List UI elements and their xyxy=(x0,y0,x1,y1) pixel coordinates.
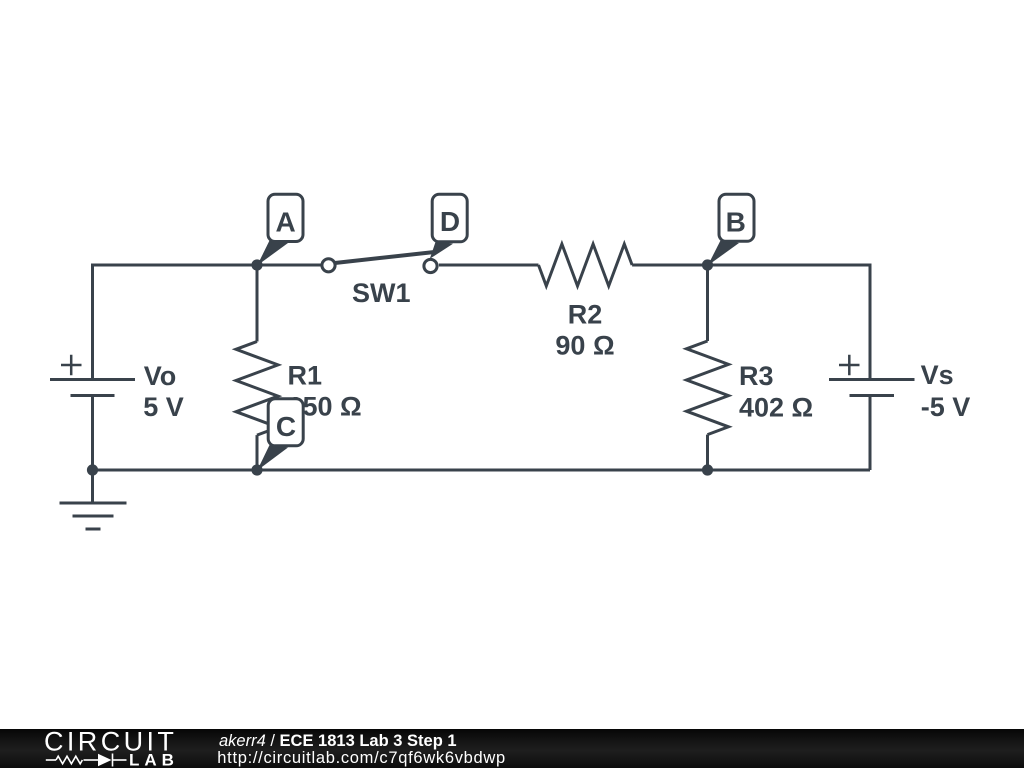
svg-text:A: A xyxy=(275,206,295,237)
footer bar xyxy=(0,729,1024,768)
svg-text:LAB: LAB xyxy=(129,751,179,768)
svg-text:90 Ω: 90 Ω xyxy=(555,331,614,361)
svg-text:http://circuitlab.com/c7qf6wk6: http://circuitlab.com/c7qf6wk6vbdwp xyxy=(217,749,506,767)
resistor R1 xyxy=(236,265,278,470)
svg-text:5 V: 5 V xyxy=(143,392,184,422)
resistor R3 xyxy=(687,265,729,470)
junction dot R3 bottom xyxy=(702,464,713,475)
svg-text:R2: R2 xyxy=(568,300,603,330)
wire top left segment xyxy=(93,264,322,267)
node B xyxy=(708,194,754,265)
wire right vertical top xyxy=(869,264,872,380)
svg-text:Vo: Vo xyxy=(144,361,177,391)
svg-text:402 Ω: 402 Ω xyxy=(739,393,813,423)
switch SW1 xyxy=(322,252,437,273)
svg-text:Vs: Vs xyxy=(921,360,954,390)
junction dot node A xyxy=(251,259,262,270)
ground xyxy=(60,470,127,529)
svg-text:D: D xyxy=(440,206,460,237)
svg-text:R3: R3 xyxy=(739,361,774,391)
junction dot node B xyxy=(702,259,713,270)
svg-text:B: B xyxy=(726,206,746,237)
wire switch to R2 xyxy=(439,264,539,267)
node D xyxy=(430,194,467,258)
svg-text:SW1: SW1 xyxy=(352,278,411,308)
battery Vs xyxy=(829,355,915,470)
svg-text:C: C xyxy=(276,411,296,442)
resistor R2 xyxy=(539,244,633,286)
wire R2 to right corner xyxy=(632,264,870,267)
wire bottom xyxy=(93,469,871,472)
junction dot ground xyxy=(87,464,98,475)
node C xyxy=(257,399,303,471)
svg-text:R1: R1 xyxy=(288,361,323,391)
junction dot node C xyxy=(251,464,262,475)
CircuitLab logo schematic glyph xyxy=(46,754,127,767)
svg-text:-5 V: -5 V xyxy=(921,392,971,422)
wire left vertical top xyxy=(91,264,94,380)
svg-text:akerr4 / ECE 1813 Lab 3 Step 1: akerr4 / ECE 1813 Lab 3 Step 1 xyxy=(219,732,457,750)
battery Vo xyxy=(50,355,135,470)
node A xyxy=(257,194,303,265)
